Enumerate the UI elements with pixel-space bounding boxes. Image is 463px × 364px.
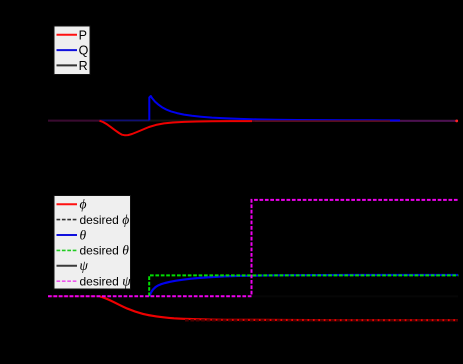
Q spike curve [149,96,400,120]
P dim tail [252,120,390,122]
svg-text:P: P [79,28,87,42]
desired theta (green dashed step) [149,275,458,296]
legend Q line [57,49,78,51]
desired psi (magenta dashed step) [48,200,459,296]
legend theta label [80,227,87,242]
legend R line [57,64,78,66]
legend psi label [80,258,89,273]
svg-text:Q: Q [79,44,89,58]
legend psi line [57,265,78,267]
svg-text:desired ψ: desired ψ [80,274,132,289]
svg-text:R: R [79,59,88,73]
legend phi line [57,203,78,205]
svg-text:ψ: ψ [80,258,89,273]
top legend box [54,26,90,75]
legend Q label [79,44,89,58]
legend desired-phi label [80,212,130,227]
P end marker dot [455,120,458,123]
svg-text:θ: θ [80,227,87,242]
P dip curve [100,121,253,136]
bottom legend box [54,196,131,290]
legend P label [79,28,87,42]
legend R label [79,59,88,73]
svg-text:desired θ: desired θ [80,243,130,258]
baseline overlap left (dark purple P+Q+R) [48,120,100,122]
theta (blue) response [149,275,458,296]
legend desired-psi line [57,280,78,282]
R line (dark gray, at zero) [48,120,458,122]
legend P line [57,34,78,36]
merged baseline right (dim purple) [255,120,458,122]
desired phi (black dashed over red) [185,319,458,321]
legend desired-theta line [57,249,78,251]
legend desired-psi label [80,274,132,289]
svg-text:desired ϕ: desired ϕ [80,212,130,227]
phi zero underline (dark red) [48,295,100,297]
legend theta line [57,234,78,236]
psi line (black, at zero, invisible on black bg) [48,295,458,297]
svg-text:ϕ: ϕ [80,197,87,212]
phi (red) response [100,296,458,320]
Q at zero (navy) [100,119,150,121]
legend desired-theta label [80,243,130,258]
legend desired-phi line [57,219,78,221]
legend phi label [80,197,87,212]
